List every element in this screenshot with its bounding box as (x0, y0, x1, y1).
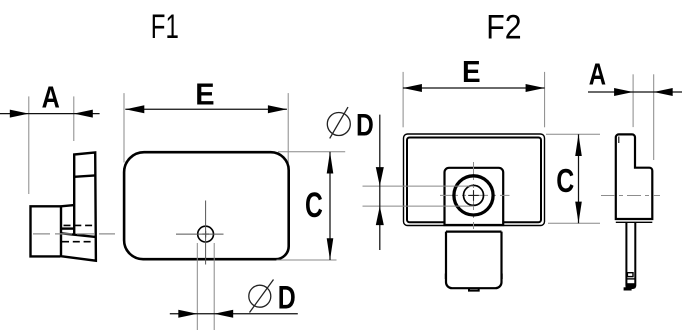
dimension D (F1): diameter symbol circle (249, 285, 271, 307)
dimension E (F1): left arrow (125, 105, 144, 113)
F1 front view: hole circle (198, 226, 214, 242)
dimension D (F1): diameter symbol slash (250, 280, 274, 313)
svg-text:F1: F1 (151, 8, 179, 46)
F2 side view: bottom foot tab (624, 287, 632, 290)
F1 side view: top tab divider line (74, 175, 95, 176)
F1 front view: hole horizontal centerline (176, 233, 224, 235)
svg-text:E: E (462, 54, 481, 89)
dimension E (F1): right arrow (268, 105, 287, 113)
F1 front view: hole center cross (202, 231, 209, 238)
dimension D (F2): extension line lower (363, 205, 475, 207)
F2 front view: outer rounded rectangle (thin) (404, 134, 545, 226)
dimension D (F1): left arrow (178, 310, 197, 318)
dimension C (F1): top arrow (327, 152, 334, 174)
dimension D (F1): dimension line (170, 313, 298, 315)
dimension D (F2): upper arrow (376, 167, 384, 186)
dimension D (F1): extension line right (213, 243, 215, 330)
dimension C (F2): dimension line (578, 134, 580, 223)
F2 front view: boss square outline (445, 168, 504, 225)
F2 front view: lower block right side bump (501, 274, 503, 280)
dimension A (F2): right arrow (654, 88, 673, 96)
F1 side view: web bottom line (61, 227, 74, 229)
dimension C (F1): bottom arrow (327, 238, 334, 260)
F2 front view: horizontal centerline (440, 194, 510, 196)
svg-text:D: D (278, 279, 296, 316)
svg-text:E: E (195, 76, 214, 111)
dimension D (F2): dimension line (379, 115, 381, 250)
F2 front view: inner rounded rectangle (thick) (407, 138, 541, 223)
dimension D (F2): diameter symbol slash (330, 107, 348, 138)
svg-text:D: D (356, 108, 374, 143)
F2 side view: bar window detail (627, 273, 633, 277)
dimension E (F1): extension line right (287, 93, 289, 163)
dimension A (F1): extension line left (28, 96, 30, 194)
dimension C (F2): bottom arrow (575, 202, 582, 224)
dimension A (F1): dimension line (0, 113, 100, 115)
dimension E (F1): dimension line (125, 108, 287, 110)
dimension E (F2): dimension line (403, 87, 545, 89)
svg-text:C: C (305, 186, 323, 225)
F1 side view: hidden line upper (64, 224, 96, 226)
dimension E (F2): left arrow (403, 84, 422, 92)
F1 side view: left block outline (31, 206, 62, 256)
dimension A (F2): extension line left (632, 74, 634, 127)
svg-text:A: A (589, 58, 606, 92)
dimension E (F2): extension line right (544, 72, 546, 127)
F2 front view: lower block outline (446, 232, 502, 289)
dimension C (F2): extension line top (546, 133, 600, 135)
F2 front view: boss square white fill (445, 168, 504, 225)
F1 side view: roof line from block to tall plate (61, 205, 74, 206)
dimension C (F1): extension line bottom (277, 259, 337, 261)
dimension C (F1): extension line top (278, 151, 345, 153)
svg-text:F2: F2 (486, 9, 521, 47)
F2 side view: lower thin bar outline (626, 222, 635, 288)
dimension D (F1): extension line left (196, 243, 198, 330)
F2 front view: inner circle (464, 185, 484, 205)
dimension C (F2): extension line bottom (548, 222, 600, 224)
F2 front view: vertical centerline (473, 162, 475, 229)
F2 front view: thick ring (454, 176, 493, 215)
dimension D (F1): right arrow (214, 310, 233, 318)
dimension E (F2): extension line left (402, 72, 404, 127)
dimension E (F1): extension line left (123, 93, 125, 162)
svg-text:C: C (556, 163, 574, 200)
F1 side view: tall plate outline (61, 152, 96, 260)
F2 side view: horizontal centerline (601, 195, 660, 197)
F2 side view: bottom thin line (616, 221, 653, 223)
F1 side view: internal diagonal edge (61, 233, 96, 237)
F2 front view: lower block bottom tab (469, 288, 479, 290)
dimension A (F2): extension line right (653, 74, 655, 160)
F2 side view: outline (616, 134, 653, 219)
F1 side view: horizontal centerline (33, 233, 115, 235)
dimension C (F2): top arrow (575, 134, 582, 156)
dimension D (F2): diameter symbol circle (327, 113, 350, 136)
F2 side view: bar solid bottom (626, 283, 636, 288)
dimension E (F2): right arrow (526, 84, 545, 92)
F1 side view: hidden line lower (62, 241, 93, 243)
dimension A (F2): left arrow (614, 88, 633, 96)
F2 side view: bar cross line (626, 278, 635, 280)
F1 front view: rounded rectangle body (124, 152, 289, 259)
dimension A (F1): right arrow (74, 110, 93, 118)
dimension D (F2): lower arrow (376, 206, 384, 225)
F2 front view: lower block left side bump (445, 274, 447, 280)
dimension A (F1): left arrow (10, 110, 29, 118)
F2 front view: center cross (468, 190, 479, 201)
svg-text:A: A (42, 80, 60, 114)
F1 front view: hole vertical centerline (205, 201, 207, 265)
dimension A (F1): extension line right (73, 96, 75, 141)
F2 side view: left edge inner line (618, 137, 620, 144)
dimension C (F1): dimension line (329, 152, 331, 260)
dimension A (F2): dimension line (588, 91, 682, 93)
dimension D (F2): extension line upper (363, 185, 475, 187)
